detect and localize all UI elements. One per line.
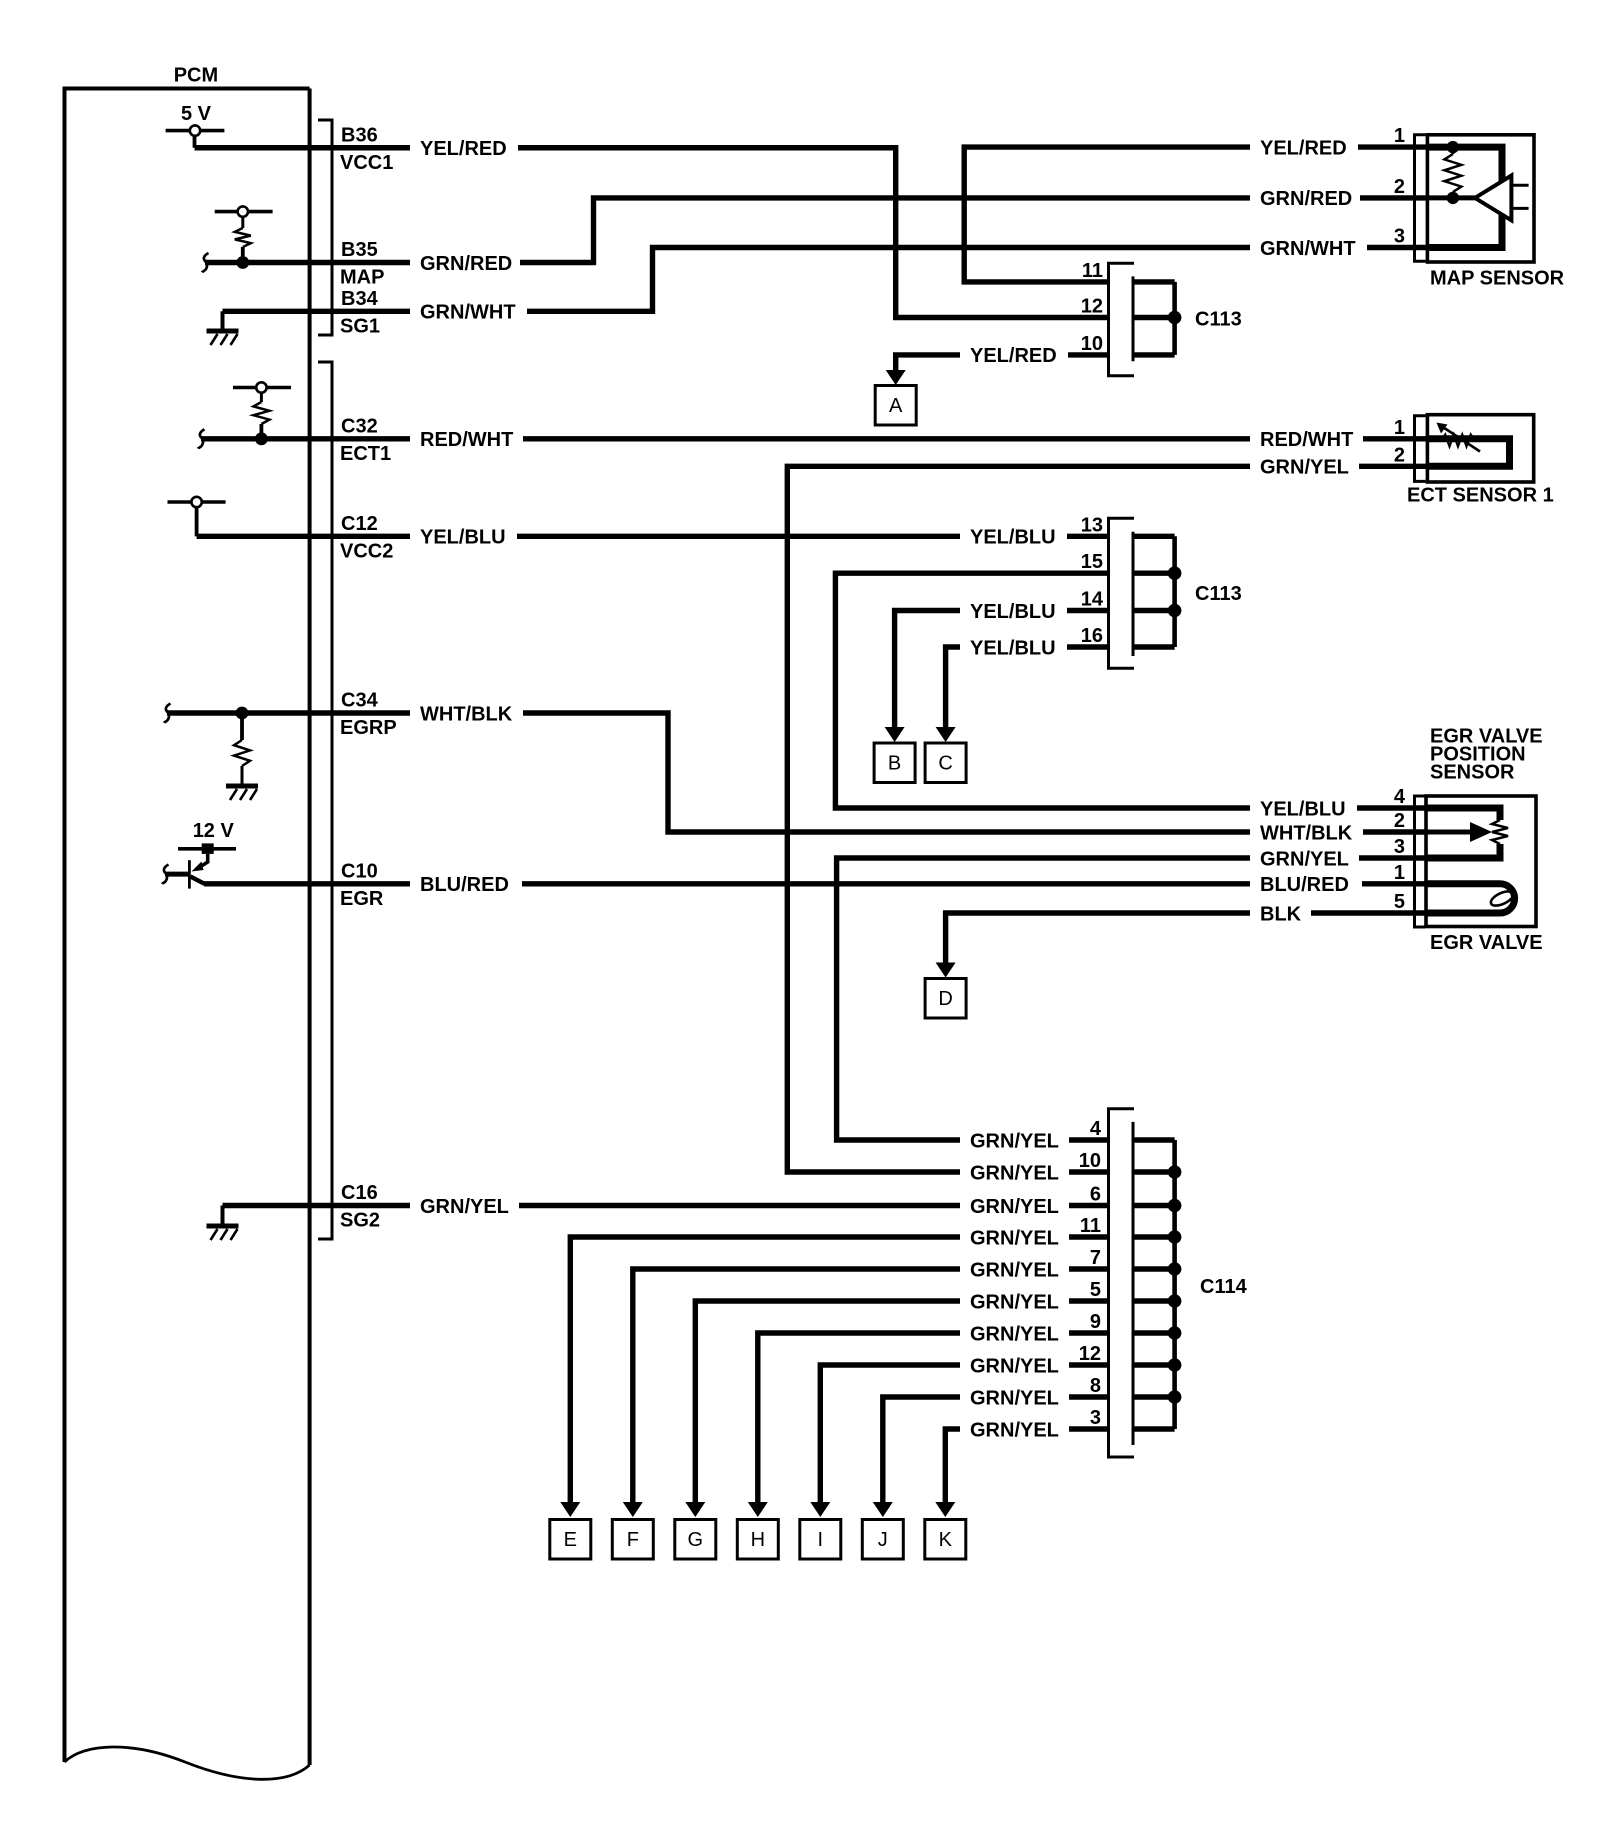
svg-text:J: J xyxy=(878,1529,888,1551)
svg-text:C: C xyxy=(938,753,952,775)
svg-text:WHT/BLK: WHT/BLK xyxy=(420,703,513,725)
svg-text:YEL/RED: YEL/RED xyxy=(1260,137,1347,159)
svg-text:H: H xyxy=(751,1529,765,1551)
svg-text:A: A xyxy=(889,395,903,417)
svg-text:GRN/YEL: GRN/YEL xyxy=(970,1196,1059,1218)
svg-text:16: 16 xyxy=(1081,625,1103,647)
svg-text:12 V: 12 V xyxy=(193,820,235,842)
svg-text:GRN/YEL: GRN/YEL xyxy=(970,1387,1059,1409)
svg-text:I: I xyxy=(818,1529,824,1551)
svg-text:GRN/YEL: GRN/YEL xyxy=(970,1259,1059,1281)
svg-text:YEL/BLU: YEL/BLU xyxy=(420,527,506,549)
svg-text:EGR: EGR xyxy=(340,888,384,910)
svg-text:15: 15 xyxy=(1081,551,1103,573)
svg-text:BLK: BLK xyxy=(1260,903,1302,925)
svg-text:EGR VALVE: EGR VALVE xyxy=(1430,932,1543,954)
svg-text:11: 11 xyxy=(1080,1215,1101,1237)
svg-text:YEL/BLU: YEL/BLU xyxy=(1260,798,1346,820)
svg-text:C12: C12 xyxy=(341,513,378,535)
svg-text:9: 9 xyxy=(1090,1311,1101,1333)
svg-text:RED/WHT: RED/WHT xyxy=(420,429,513,451)
svg-text:EGRP: EGRP xyxy=(340,717,397,739)
svg-text:C114: C114 xyxy=(1200,1276,1248,1298)
svg-text:GRN/WHT: GRN/WHT xyxy=(1260,238,1356,260)
svg-text:GRN/RED: GRN/RED xyxy=(1260,188,1352,210)
svg-text:5: 5 xyxy=(1394,891,1405,913)
svg-text:BLU/RED: BLU/RED xyxy=(420,874,509,896)
svg-text:F: F xyxy=(627,1529,639,1551)
svg-text:12: 12 xyxy=(1079,1343,1101,1365)
svg-text:12: 12 xyxy=(1081,296,1103,318)
svg-text:C16: C16 xyxy=(341,1182,378,1204)
svg-text:GRN/YEL: GRN/YEL xyxy=(970,1162,1059,1184)
svg-text:YEL/RED: YEL/RED xyxy=(420,138,507,160)
svg-text:GRN/RED: GRN/RED xyxy=(420,253,512,275)
svg-text:MAP: MAP xyxy=(340,267,384,289)
svg-text:GRN/YEL: GRN/YEL xyxy=(1260,848,1349,870)
svg-text:4: 4 xyxy=(1394,786,1406,808)
svg-text:SENSOR: SENSOR xyxy=(1430,762,1515,784)
svg-text:GRN/YEL: GRN/YEL xyxy=(970,1130,1059,1152)
svg-text:GRN/YEL: GRN/YEL xyxy=(420,1196,509,1218)
svg-text:11: 11 xyxy=(1082,260,1103,282)
svg-text:GRN/YEL: GRN/YEL xyxy=(970,1355,1059,1377)
svg-text:SG2: SG2 xyxy=(340,1210,380,1232)
svg-text:7: 7 xyxy=(1090,1247,1101,1269)
svg-text:C113: C113 xyxy=(1195,309,1242,331)
svg-text:6: 6 xyxy=(1090,1184,1101,1206)
svg-text:ECT SENSOR 1: ECT SENSOR 1 xyxy=(1407,485,1554,507)
svg-text:YEL/BLU: YEL/BLU xyxy=(970,637,1056,659)
svg-text:4: 4 xyxy=(1090,1118,1102,1140)
svg-text:1: 1 xyxy=(1394,125,1405,147)
svg-text:2: 2 xyxy=(1394,810,1405,832)
svg-text:K: K xyxy=(939,1529,953,1551)
svg-text:GRN/YEL: GRN/YEL xyxy=(970,1227,1059,1249)
svg-text:5 V: 5 V xyxy=(181,103,212,125)
svg-text:BLU/RED: BLU/RED xyxy=(1260,874,1349,896)
svg-text:RED/WHT: RED/WHT xyxy=(1260,429,1353,451)
svg-text:C113: C113 xyxy=(1195,583,1242,605)
svg-text:GRN/YEL: GRN/YEL xyxy=(970,1323,1059,1345)
svg-text:YEL/BLU: YEL/BLU xyxy=(970,527,1056,549)
svg-text:SG1: SG1 xyxy=(340,315,380,337)
svg-text:C32: C32 xyxy=(341,415,378,437)
svg-text:3: 3 xyxy=(1394,836,1405,858)
svg-text:B: B xyxy=(888,753,901,775)
svg-text:ECT1: ECT1 xyxy=(340,443,391,465)
svg-text:13: 13 xyxy=(1081,514,1103,536)
svg-text:WHT/BLK: WHT/BLK xyxy=(1260,822,1353,844)
svg-text:1: 1 xyxy=(1394,862,1405,884)
svg-text:GRN/YEL: GRN/YEL xyxy=(970,1291,1059,1313)
svg-text:8: 8 xyxy=(1090,1375,1101,1397)
svg-text:YEL/RED: YEL/RED xyxy=(970,345,1057,367)
svg-text:YEL/BLU: YEL/BLU xyxy=(970,601,1056,623)
svg-text:PCM: PCM xyxy=(174,65,218,87)
svg-text:GRN/YEL: GRN/YEL xyxy=(1260,457,1349,479)
svg-text:C34: C34 xyxy=(341,690,379,712)
svg-text:14: 14 xyxy=(1081,589,1104,611)
svg-text:GRN/YEL: GRN/YEL xyxy=(970,1419,1059,1441)
svg-text:5: 5 xyxy=(1090,1279,1101,1301)
svg-text:VCC1: VCC1 xyxy=(340,152,393,174)
svg-text:10: 10 xyxy=(1079,1150,1101,1172)
svg-text:B35: B35 xyxy=(341,239,378,261)
svg-text:3: 3 xyxy=(1394,226,1405,248)
svg-text:G: G xyxy=(688,1529,704,1551)
svg-text:2: 2 xyxy=(1394,176,1405,198)
svg-text:B34: B34 xyxy=(341,288,379,310)
svg-text:2: 2 xyxy=(1394,444,1405,466)
svg-text:E: E xyxy=(564,1529,577,1551)
svg-text:B36: B36 xyxy=(341,124,378,146)
svg-text:1: 1 xyxy=(1394,417,1405,439)
svg-text:3: 3 xyxy=(1090,1407,1101,1429)
svg-text:MAP SENSOR: MAP SENSOR xyxy=(1430,268,1565,290)
svg-text:10: 10 xyxy=(1081,333,1103,355)
svg-text:VCC2: VCC2 xyxy=(340,540,393,562)
svg-text:D: D xyxy=(938,988,952,1010)
svg-text:C10: C10 xyxy=(341,860,378,882)
svg-text:GRN/WHT: GRN/WHT xyxy=(420,302,516,324)
